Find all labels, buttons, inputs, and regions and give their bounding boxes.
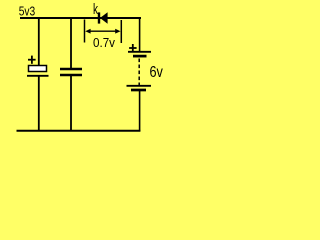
svg-text:k: k <box>93 1 98 18</box>
battery B1 cell1 long plate <box>128 51 151 53</box>
wire bottom rail <box>17 130 141 132</box>
wire left capacitor branch upper <box>38 18 40 66</box>
battery B1 polarity plus <box>129 44 137 52</box>
capacitor C1 negative plate <box>27 75 49 77</box>
battery B1 cell2 short plate <box>131 89 146 92</box>
svg-text:6v: 6v <box>150 64 164 81</box>
svg-text:5v3: 5v3 <box>19 3 36 18</box>
wire battery negative lead <box>139 91 141 131</box>
svg-text:0.7v: 0.7v <box>93 35 115 50</box>
capacitor C2 bottom plate <box>60 74 82 76</box>
wire middle capacitor branch lower <box>70 76 72 132</box>
battery B1 dashed cell link <box>138 59 140 86</box>
wire battery positive lead <box>139 18 141 52</box>
annotation left tick <box>84 20 86 43</box>
annotation right arrowhead <box>115 29 120 34</box>
wire middle capacitor branch upper <box>70 18 72 69</box>
diode D1 cathode bar <box>98 12 100 23</box>
annotation double arrow line <box>89 30 118 32</box>
annotation right tick <box>120 20 122 43</box>
capacitor C1 positive plate box <box>29 66 47 72</box>
capacitor C2 top plate <box>60 68 82 70</box>
battery B1 cell1 short plate <box>133 55 147 58</box>
wire left capacitor branch lower <box>38 77 40 132</box>
capacitor C1 polarity plus <box>28 56 36 64</box>
wire top rail 5v3 <box>20 17 141 19</box>
diode D1 anode triangle <box>100 12 108 23</box>
battery B1 cell2 long plate <box>127 85 152 87</box>
annotation left arrowhead <box>85 29 90 34</box>
